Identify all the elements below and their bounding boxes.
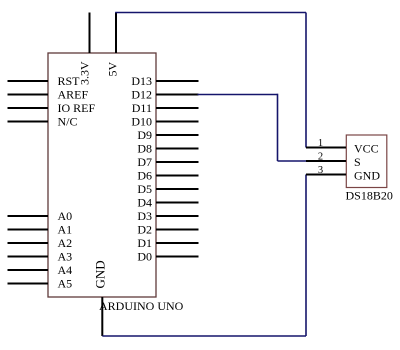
pin D10 — [131, 115, 198, 129]
pin D13 — [131, 74, 198, 88]
svg-text:GND: GND — [93, 260, 108, 288]
wire D12 net: horizontal to S pin — [278, 160, 307, 162]
svg-text:3: 3 — [318, 165, 323, 176]
svg-text:A4: A4 — [58, 263, 73, 277]
svg-text:A5: A5 — [58, 277, 73, 291]
pin RST — [8, 74, 81, 88]
svg-text:D10: D10 — [131, 115, 152, 129]
pin 2 S of DS18B20 — [306, 152, 361, 169]
svg-text:D5: D5 — [137, 182, 152, 196]
pin D2 — [137, 223, 198, 237]
pin AREF — [8, 88, 89, 102]
wire D12 net: horizontal from pin D12 — [198, 94, 278, 96]
pin A1 — [8, 223, 73, 237]
pin D1 — [137, 236, 198, 250]
svg-text:2: 2 — [318, 152, 323, 163]
svg-text:D0: D0 — [137, 250, 152, 264]
pin A0 — [8, 209, 73, 223]
svg-text:GND: GND — [354, 168, 380, 182]
pin D6 — [137, 169, 198, 183]
svg-text:S: S — [354, 155, 361, 169]
pin 1 VCC of DS18B20 — [306, 138, 379, 155]
pin A2 — [8, 236, 73, 250]
pin 3 GND of DS18B20 — [306, 165, 380, 182]
pin D3 — [137, 209, 198, 223]
pin 3.3V (top, unconnected) — [78, 13, 92, 86]
IC U2 DS18B20 body — [346, 135, 387, 188]
wire 5V net: vertical down to VCC — [305, 13, 307, 148]
wire D12 net: vertical down — [277, 94, 279, 161]
pin D5 — [137, 182, 198, 196]
pin A3 — [8, 250, 73, 264]
svg-text:1: 1 — [318, 138, 323, 149]
svg-text:D12: D12 — [131, 88, 152, 102]
svg-text:D4: D4 — [137, 196, 152, 210]
svg-text:D2: D2 — [137, 223, 152, 237]
svg-text:3.3V: 3.3V — [78, 61, 92, 85]
svg-text:D11: D11 — [132, 101, 152, 115]
svg-text:VCC: VCC — [354, 141, 379, 155]
svg-text:RST: RST — [58, 74, 81, 88]
pin D11 — [132, 101, 199, 115]
svg-text:D7: D7 — [137, 155, 152, 169]
svg-text:D13: D13 — [131, 74, 152, 88]
wire 5V net: top horizontal — [115, 12, 306, 14]
wire GND net: horizontal bottom — [102, 335, 306, 337]
pin D9 — [137, 128, 198, 142]
pin A4 — [8, 263, 73, 277]
pin N/C — [8, 115, 78, 129]
svg-text:N/C: N/C — [58, 115, 78, 129]
pin GND (bottom) — [93, 260, 108, 336]
pin D12 — [131, 88, 198, 102]
wire GND net: vertical up to DS18B20 GND — [305, 175, 307, 337]
pin IO REF — [8, 101, 96, 115]
pin A5 — [8, 277, 73, 291]
svg-text:D8: D8 — [137, 142, 152, 156]
svg-text:A2: A2 — [58, 236, 73, 250]
IC U1 ARDUINO UNO body — [48, 53, 156, 297]
pin 5V (top) — [106, 13, 120, 77]
svg-text:D1: D1 — [137, 236, 152, 250]
svg-text:A3: A3 — [58, 250, 73, 264]
svg-text:A0: A0 — [58, 209, 73, 223]
svg-text:IO REF: IO REF — [58, 101, 96, 115]
svg-text:D3: D3 — [137, 209, 152, 223]
svg-text:D9: D9 — [137, 128, 152, 142]
svg-text:ARDUINO UNO: ARDUINO UNO — [99, 299, 184, 313]
svg-text:D6: D6 — [137, 169, 152, 183]
svg-text:A1: A1 — [58, 223, 73, 237]
svg-text:5V: 5V — [106, 62, 120, 77]
pin D0 — [137, 250, 198, 264]
svg-text:AREF: AREF — [58, 88, 89, 102]
pin D7 — [137, 155, 198, 169]
pin D4 — [137, 196, 198, 210]
pin D8 — [137, 142, 198, 156]
svg-text:DS18B20: DS18B20 — [346, 189, 393, 203]
